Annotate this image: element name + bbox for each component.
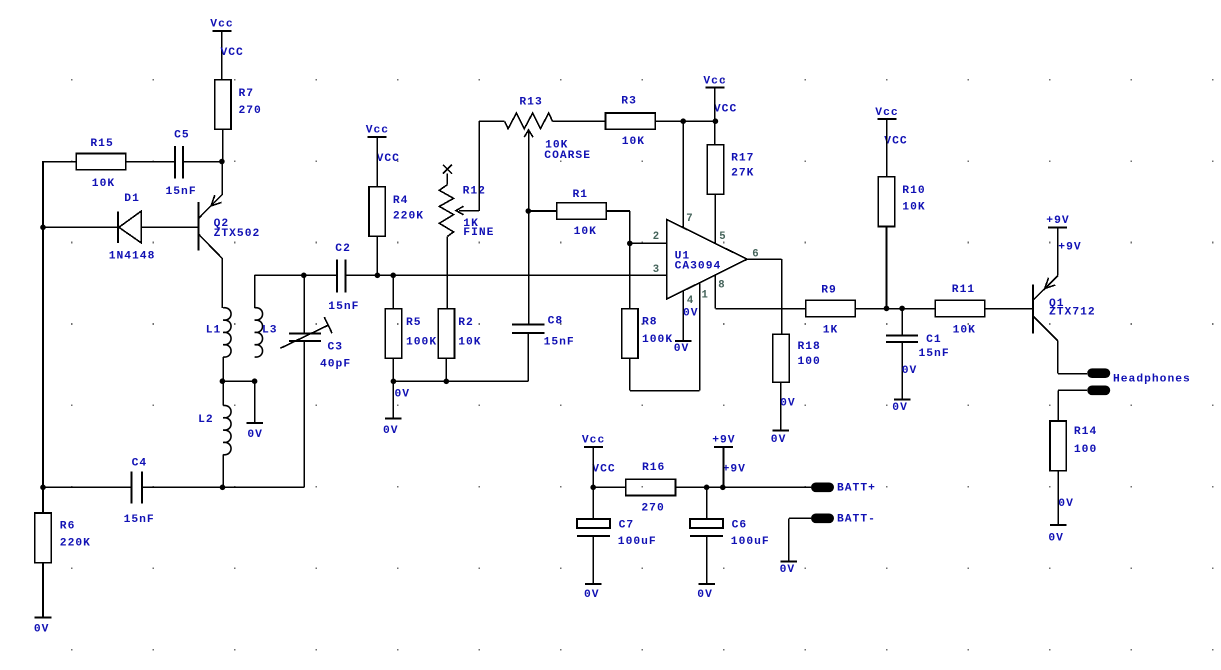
ground 0V (C6) <box>697 584 715 601</box>
svg-text:270: 270 <box>641 503 664 515</box>
svg-text:0V: 0V <box>584 589 600 601</box>
svg-text:15nF: 15nF <box>328 301 359 313</box>
svg-text:3: 3 <box>653 264 659 276</box>
wire collector to headphone jack <box>1058 373 1087 375</box>
svg-text:L3: L3 <box>262 325 278 337</box>
junction C1 tap <box>899 306 905 312</box>
wire R13 left <box>479 120 505 122</box>
junction rail-D1 <box>40 225 46 231</box>
resistor R11 <box>935 284 985 337</box>
capacitor C6 (electrolytic) <box>690 519 770 548</box>
pin number 8 <box>718 280 724 292</box>
wire +9V tap to BATT+ <box>723 486 811 488</box>
net label 0V (R18) <box>780 398 796 410</box>
net label VCC (R10) <box>884 135 907 147</box>
svg-text:0V: 0V <box>1048 533 1064 545</box>
resistor R6 <box>35 513 91 563</box>
svg-text:0V: 0V <box>902 365 918 377</box>
wire R12 bottom to R2 <box>446 236 448 308</box>
power symbol +9V (battery) <box>712 434 735 446</box>
resistor R10 <box>878 177 925 227</box>
svg-text:C1: C1 <box>926 334 942 346</box>
wire C2 to op-amp pin 3 <box>345 274 666 276</box>
junction node G (L2/C3) <box>220 485 226 491</box>
wire R5 junction to ground <box>392 381 394 418</box>
pin 2 wire <box>630 242 667 244</box>
wire node C to C4 <box>43 486 132 488</box>
wire L1 to node B <box>222 357 224 381</box>
svg-text:R4: R4 <box>393 195 409 207</box>
svg-text:R14: R14 <box>1074 426 1097 438</box>
pin number 4 <box>687 295 694 307</box>
wire rail to D1 <box>43 226 118 228</box>
svg-text:100: 100 <box>1074 444 1097 456</box>
resistor R4 <box>369 187 424 237</box>
wire R13 wiper down to R1 tap <box>528 211 530 324</box>
capacitor C2 <box>328 243 359 313</box>
junction pin7 tap <box>680 118 686 124</box>
junction R4 tap <box>375 273 381 279</box>
svg-text:Vcc: Vcc <box>875 107 898 119</box>
wire main line to R5 <box>392 275 394 308</box>
svg-text:0V: 0V <box>697 589 713 601</box>
wire R1 left <box>528 210 557 212</box>
wire BATT- to ground <box>789 518 811 561</box>
wire C5 to node A <box>183 161 223 163</box>
junction R5 tap <box>390 273 396 279</box>
svg-text:C8: C8 <box>548 316 564 328</box>
junction node E <box>590 485 596 491</box>
resistor R1 <box>557 189 607 238</box>
wire Vcc to node E <box>592 447 594 487</box>
pin number 3 <box>653 264 659 276</box>
inductor L2 <box>198 405 231 454</box>
svg-text:27K: 27K <box>731 168 754 180</box>
svg-text:15nF: 15nF <box>124 514 155 526</box>
svg-text:VCC: VCC <box>221 47 244 59</box>
svg-text:Vcc: Vcc <box>582 435 605 447</box>
ground 0V (pin 4) <box>674 341 692 355</box>
resistor R8 <box>622 309 674 359</box>
diode D1 1N4148 <box>109 193 156 263</box>
svg-text:1K: 1K <box>823 325 839 337</box>
ground 0V (R18) <box>771 430 789 446</box>
capacitor C1 <box>886 334 950 360</box>
wire R7 to node A <box>222 129 224 162</box>
wire X to R12 <box>446 174 448 185</box>
svg-text:R2: R2 <box>458 317 474 329</box>
pin 1 wire <box>699 283 701 391</box>
svg-text:R16: R16 <box>642 462 665 474</box>
wire R1 right corner <box>606 211 630 243</box>
svg-text:R9: R9 <box>821 284 837 296</box>
wire Q2 collector to L1 <box>221 259 223 308</box>
svg-text:COARSE: COARSE <box>544 150 591 162</box>
wire C3 top <box>303 275 305 332</box>
net label 0V (R14) <box>1058 498 1074 510</box>
junction C3 tap <box>301 273 307 279</box>
wire R9 to node D <box>855 308 886 310</box>
svg-text:10K: 10K <box>953 325 976 337</box>
svg-text:0V: 0V <box>780 564 796 576</box>
svg-text:R8: R8 <box>642 316 658 328</box>
svg-text:+9V: +9V <box>1046 215 1069 227</box>
svg-text:R7: R7 <box>239 88 255 100</box>
capacitor C4 <box>124 457 155 526</box>
junction node C <box>40 485 46 491</box>
label BATT+ <box>837 483 876 495</box>
resistor R2 <box>438 309 481 359</box>
junction R1 tap <box>526 208 532 214</box>
wire Q1 collector down <box>1057 341 1059 374</box>
svg-text:R1: R1 <box>573 189 589 201</box>
svg-text:0V: 0V <box>674 343 690 355</box>
wire node G to C3 bottom <box>223 486 305 488</box>
svg-text:Vcc: Vcc <box>366 125 389 137</box>
resistor R7 <box>215 80 262 130</box>
wire R15 to C5 <box>126 161 175 163</box>
pin 6 wire <box>747 258 782 260</box>
wire D1 to Q2 base <box>141 226 198 228</box>
svg-text:L2: L2 <box>198 414 214 426</box>
wire node C to R6 <box>42 487 44 513</box>
svg-text:ZTX502: ZTX502 <box>214 228 261 240</box>
wire C1 tap to R11 <box>902 308 936 310</box>
inductor L3 <box>255 308 278 357</box>
svg-text:0V: 0V <box>383 425 399 437</box>
wire Vcc to R10 <box>886 119 888 177</box>
wire R3 to pin7 tap <box>655 120 683 122</box>
op-amp U1 CA3094 <box>667 220 747 300</box>
junction L3 bottom <box>252 378 258 384</box>
wire L3 top stub <box>254 275 256 308</box>
wire left rail top corner <box>42 161 44 228</box>
connector pad headphones ring <box>1087 386 1110 396</box>
wire pin7 tap to Vcc tap <box>683 120 715 122</box>
junction node B <box>220 378 226 384</box>
svg-text:7: 7 <box>686 213 692 225</box>
resistor R5 <box>385 309 437 359</box>
resistor R9 <box>806 284 856 336</box>
wire headphone return <box>1058 390 1087 421</box>
svg-text:0V: 0V <box>247 429 263 441</box>
wire Vcc to R7 <box>221 31 223 80</box>
net label +9V (Q1) <box>1058 241 1081 253</box>
svg-text:VCC: VCC <box>714 103 737 115</box>
svg-text:0V: 0V <box>892 402 908 414</box>
net label VCC (R4) <box>377 153 400 165</box>
junction node A (R7/C5/Q2 emitter) <box>219 159 225 165</box>
svg-text:R3: R3 <box>621 96 637 108</box>
svg-text:R10: R10 <box>902 185 925 197</box>
wire R8 bottom <box>629 358 631 390</box>
svg-text:100uF: 100uF <box>731 536 770 548</box>
net label 0V (R5) <box>395 388 411 400</box>
connector pad BATT- <box>811 514 834 524</box>
wire R10 to node D <box>886 227 888 309</box>
junction R2/0V bus <box>444 379 450 385</box>
svg-text:2: 2 <box>653 231 659 243</box>
pin 4 wire <box>682 291 684 341</box>
svg-text:Headphones: Headphones <box>1113 374 1191 386</box>
svg-text:C5: C5 <box>174 129 190 141</box>
svg-text:270: 270 <box>239 105 262 117</box>
svg-text:C7: C7 <box>619 520 635 532</box>
wire R14 to ground <box>1057 471 1059 525</box>
svg-text:R6: R6 <box>60 520 76 532</box>
net label VCC (battery) <box>592 463 615 475</box>
svg-text:15nF: 15nF <box>544 336 575 348</box>
capacitor C3 40pF (variable) <box>280 317 351 370</box>
wire C1 bottom <box>901 342 903 400</box>
wire rail to R15 <box>43 161 76 163</box>
svg-text:R11: R11 <box>952 284 975 296</box>
svg-text:5: 5 <box>719 231 725 243</box>
wire C7 to ground <box>592 536 594 584</box>
svg-text:0V: 0V <box>395 388 411 400</box>
pin 7 wire <box>682 121 684 228</box>
inductor L1 <box>206 308 231 357</box>
svg-text:VCC: VCC <box>884 135 907 147</box>
svg-text:100: 100 <box>798 356 821 368</box>
svg-text:0V: 0V <box>683 308 699 320</box>
wire +9V symbol down <box>723 447 725 488</box>
wire pin8 to R9 <box>715 308 805 310</box>
svg-text:10K: 10K <box>902 201 925 213</box>
wire C3 bottom <box>303 341 305 487</box>
svg-text:R18: R18 <box>798 341 821 353</box>
net label VCC (R17) <box>714 103 737 115</box>
svg-text:0V: 0V <box>34 624 50 636</box>
svg-text:C6: C6 <box>732 520 748 532</box>
svg-text:BATT-: BATT- <box>837 514 876 526</box>
svg-text:+9V: +9V <box>712 434 735 446</box>
resistor R14 <box>1050 421 1097 471</box>
wire R16 to node F <box>676 486 707 488</box>
wire C1 top <box>901 309 903 336</box>
power symbol Vcc (R10) <box>875 107 898 119</box>
wire node E to R16 <box>593 486 626 488</box>
junction +9V tap <box>720 485 726 491</box>
svg-text:Vcc: Vcc <box>210 19 233 31</box>
svg-text:Vcc: Vcc <box>703 75 726 87</box>
power symbol +9V (Q1) <box>1046 215 1069 227</box>
svg-text:220K: 220K <box>393 211 424 223</box>
pin number 2 <box>653 231 659 243</box>
wire C4 to node G <box>142 486 223 488</box>
svg-text:15nF: 15nF <box>166 186 197 198</box>
net label VCC <box>221 47 244 59</box>
potentiometer R13 10K COARSE <box>505 96 591 211</box>
svg-text:10K: 10K <box>458 337 481 349</box>
ground 0V (C7) <box>584 584 602 601</box>
ground 0V (R6) <box>34 617 51 635</box>
net label 0V (C1) <box>902 365 918 377</box>
svg-text:10K: 10K <box>92 178 115 190</box>
svg-text:+9V: +9V <box>1058 241 1081 253</box>
svg-text:10K: 10K <box>574 226 597 238</box>
capacitor C5 <box>166 129 197 198</box>
wire R2 to 0V bus <box>445 358 447 381</box>
junction pin2 tap <box>627 241 633 247</box>
svg-text:0V: 0V <box>771 434 787 446</box>
svg-text:R12: R12 <box>463 186 486 198</box>
wire node D to C1 tap <box>887 308 903 310</box>
ground 0V (L3) <box>246 423 263 441</box>
power symbol Vcc (R17) <box>703 75 726 87</box>
wire rail D1 to node C <box>42 227 44 487</box>
transistor Q1 ZTX712 <box>1033 227 1095 340</box>
wire R4 to main line <box>376 236 378 275</box>
svg-text:100K: 100K <box>642 334 673 346</box>
wire node B to L3 bottom <box>222 380 254 382</box>
junction node D (R10) <box>884 306 890 312</box>
power symbol Vcc (battery) <box>582 435 605 447</box>
wire L2 to node C <box>222 455 224 488</box>
power symbol Vcc (top left) <box>210 19 233 31</box>
net label 0V (pin4) <box>683 308 699 320</box>
pin number 5 <box>719 231 725 243</box>
wire node F to C6 <box>706 487 708 519</box>
svg-text:ZTX712: ZTX712 <box>1049 307 1096 319</box>
wire R6 to ground <box>42 563 44 618</box>
svg-text:R13: R13 <box>519 96 542 108</box>
resistor R16 <box>626 462 676 515</box>
svg-text:VCC: VCC <box>592 463 615 475</box>
svg-text:VCC: VCC <box>377 153 400 165</box>
no-connect X on R12 <box>443 165 452 174</box>
power symbol Vcc (R4) <box>366 125 389 137</box>
ground 0V (R5) <box>383 418 402 437</box>
svg-text:D1: D1 <box>124 193 140 205</box>
wire R18 to ground <box>780 382 782 430</box>
wire L3 to C2 <box>255 274 337 276</box>
capacitor C8 <box>512 316 575 349</box>
svg-text:220K: 220K <box>60 538 91 550</box>
resistor R15 <box>76 138 126 190</box>
svg-text:C2: C2 <box>335 243 351 255</box>
wire pin6 to R18 <box>781 259 783 334</box>
junction R5/0V bus <box>391 379 397 385</box>
svg-text:L1: L1 <box>206 325 222 337</box>
pin 8 wire <box>714 275 716 308</box>
capacitor C7 (electrolytic) <box>577 519 657 548</box>
svg-text:0V: 0V <box>1058 498 1074 510</box>
svg-text:FINE: FINE <box>463 227 494 239</box>
pin number 1 <box>702 289 708 301</box>
label BATT- <box>837 514 876 526</box>
connector pad headphones tip <box>1087 368 1110 378</box>
svg-text:C3: C3 <box>328 342 344 354</box>
wire pin1 to R8 bottom <box>630 390 700 392</box>
svg-text:1N4148: 1N4148 <box>109 251 156 263</box>
ground 0V (C1) <box>892 400 910 414</box>
wire L3 bottom to ground <box>254 381 256 423</box>
wire Vcc to R4 <box>376 137 378 187</box>
svg-text:15nF: 15nF <box>919 348 950 360</box>
wire R13 right to R3 <box>553 120 606 122</box>
svg-text:R17: R17 <box>731 153 754 165</box>
wire node F to +9V tap <box>707 486 723 488</box>
wire node B to L2 <box>222 381 224 405</box>
resistor R17 <box>707 145 754 195</box>
connector pad BATT+ <box>811 483 834 493</box>
wire R5 to 0V bus <box>392 358 394 381</box>
pin 5 wire <box>714 194 716 243</box>
svg-text:10K: 10K <box>622 136 645 148</box>
svg-text:BATT+: BATT+ <box>837 483 876 495</box>
ground 0V (R14) <box>1048 525 1066 545</box>
wire R12 wiper to R13 left <box>478 121 480 211</box>
junction node F (C6) <box>704 485 710 491</box>
svg-text:R15: R15 <box>90 138 113 150</box>
svg-text:0V: 0V <box>780 398 796 410</box>
net label +9V (battery) <box>723 463 746 475</box>
svg-text:4: 4 <box>687 295 694 307</box>
label Headphones <box>1113 374 1191 386</box>
wire R11 to Q1 base <box>985 308 1034 310</box>
transistor Q2 ZTX502 <box>199 162 261 259</box>
wire Vcc to R17 <box>714 88 716 145</box>
svg-text:R5: R5 <box>406 317 422 329</box>
svg-text:1: 1 <box>702 289 708 301</box>
svg-text:100uF: 100uF <box>618 536 657 548</box>
svg-text:+9V: +9V <box>723 463 746 475</box>
wire pin2 tap down to R8 <box>629 243 631 308</box>
wire node E to C7 <box>592 487 594 519</box>
resistor R3 <box>606 96 656 148</box>
svg-text:40pF: 40pF <box>320 359 351 371</box>
junction Vcc/R17 tap <box>713 118 719 124</box>
svg-text:100K: 100K <box>406 337 437 349</box>
potentiometer R12 1K FINE <box>439 185 494 239</box>
pin number 7 <box>686 213 692 225</box>
resistor R18 <box>773 334 821 382</box>
pin number 6 <box>752 249 758 261</box>
svg-text:C4: C4 <box>132 457 148 469</box>
wire C6 to ground <box>706 536 708 584</box>
svg-text:CA3094: CA3094 <box>675 260 722 272</box>
wire 0V bus <box>393 380 528 382</box>
svg-text:8: 8 <box>718 280 724 292</box>
ground 0V (BATT-) <box>780 562 798 577</box>
wire C8 bottom to 0V bus <box>527 333 529 381</box>
